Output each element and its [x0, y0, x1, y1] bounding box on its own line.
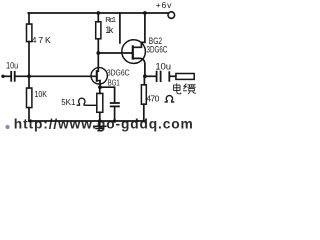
svg-text:3DG6C: 3DG6C: [147, 45, 168, 55]
wire 470 top lead: [143, 76, 145, 85]
junction BG1 emitter node: [98, 85, 102, 89]
resistor R 47K body: [27, 24, 32, 42]
resistor R 10K body: [27, 88, 32, 108]
svg-text:5K1: 5K1: [61, 98, 76, 107]
junction bypass cap-rail: [113, 119, 117, 123]
wire input node down to 10K: [28, 76, 30, 88]
transistor Q BG1 circle: [91, 68, 107, 84]
label dianlan (cable) char 1: dian: [174, 84, 181, 94]
junction BG2 emitter node: [143, 74, 147, 78]
wire emitter node to bypass cap: [100, 87, 115, 102]
wire Rc1 top lead from rail: [97, 13, 99, 22]
wire input terminal to capacitor: [4, 75, 11, 77]
wire pot bottom lead to rail: [99, 112, 101, 121]
transistor Q BG1 collector stub: [97, 70, 99, 72]
resistor Rc1 1k body: [96, 22, 101, 39]
wire bypass cap to ground rail: [114, 107, 116, 121]
input terminal dot: [1, 75, 4, 78]
svg-text:10u: 10u: [155, 61, 171, 72]
wire BG1 collector up to node A: [97, 53, 99, 71]
transistor Q BG2 base bar: [132, 46, 134, 58]
wire 47K bottom to input node: [28, 42, 30, 77]
wire 10K bottom to ground rail: [28, 108, 30, 121]
ground bar 1: [94, 125, 106, 127]
wire BG1 emitter down to emitter node: [99, 81, 101, 88]
wire bottom ground rail: [29, 120, 145, 122]
junction rail-BG2 collector: [143, 11, 147, 15]
transistor Q BG1 emitter stub: [97, 80, 100, 82]
wire top supply rail: [28, 12, 168, 14]
junction pot-ground rail: [98, 119, 102, 123]
wire pot wiper lead: [87, 104, 96, 106]
svg-text:10K: 10K: [34, 89, 47, 99]
wire stub from rail at x120: [119, 13, 121, 43]
transistor Q BG2 emitter lead: [133, 58, 145, 76]
capacitor C 10u input right plate: [14, 72, 16, 81]
svg-text:470: 470: [146, 93, 159, 103]
transistor Q BG2 collector lead: [133, 13, 145, 47]
wire 470 bottom lead to rail end: [143, 104, 145, 121]
svg-text:47K: 47K: [32, 35, 53, 45]
wire plug tick to cable box: [170, 75, 176, 77]
resistor R 470 body: [141, 85, 146, 104]
svg-text:10u: 10u: [6, 61, 18, 72]
junction rail-Rc1: [96, 11, 100, 15]
watermark bullet: [5, 125, 9, 129]
wire Rc1 bottom to node A: [97, 39, 99, 53]
power terminal +6v circle: [168, 12, 175, 19]
svg-text:BG1: BG1: [108, 77, 120, 87]
capacitor C 10u output left plate: [156, 72, 158, 82]
plug tick bar: [168, 72, 170, 81]
label dianlan (cable) char 2: lan: [183, 84, 195, 94]
svg-text:3DG6C: 3DG6C: [107, 68, 130, 78]
wire emitter out node to output cap: [145, 75, 156, 77]
svg-text:Rc1: Rc1: [105, 15, 116, 24]
wire capacitor to BG1 base: [16, 75, 97, 77]
label ohm of 5K1: [77, 98, 87, 105]
capacitor C 10u output right plate: [160, 72, 162, 82]
cable connector box: [176, 74, 194, 80]
wire pot top lead: [99, 87, 101, 93]
ground stub: [99, 121, 101, 126]
junction node A: [96, 51, 100, 55]
junction input node: [27, 74, 31, 78]
label ohm of 470: [165, 96, 175, 102]
potentiometer W 5K1 body: [97, 93, 103, 112]
transistor Q BG1 base bar: [96, 71, 98, 81]
capacitor C bypass top plate: [111, 102, 119, 104]
ground bar 3: [98, 130, 101, 132]
wire left branch down from rail to 47K: [28, 13, 30, 24]
transistor Q BG2 circle: [122, 40, 146, 64]
svg-text:+6v: +6v: [156, 0, 173, 10]
ground bar 2: [96, 128, 104, 130]
svg-text:1k: 1k: [105, 25, 114, 35]
capacitor C 10u input left plate: [10, 72, 12, 81]
wire node A to BG2 base: [99, 52, 133, 54]
capacitor C bypass bottom plate: [111, 105, 119, 107]
